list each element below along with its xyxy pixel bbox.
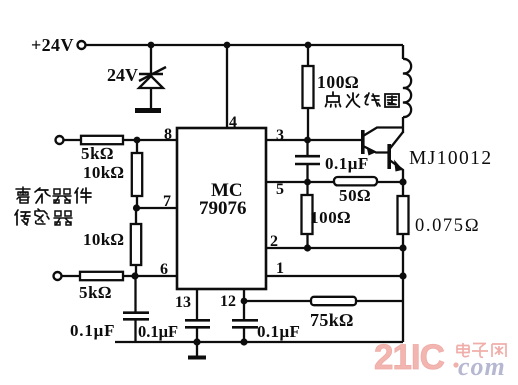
wire top rail right corner down	[402, 45, 404, 59]
wire coil to collectors	[402, 117, 404, 133]
wire 75k row left	[244, 300, 311, 302]
wire pin 12 down	[243, 289, 245, 320]
wire input2 to 5k	[62, 275, 80, 277]
node rail-C4 junction	[240, 338, 247, 345]
wire pin6 node to C1	[134, 276, 136, 313]
svg-text:10kΩ: 10kΩ	[83, 163, 124, 182]
ground (zener)	[135, 108, 161, 113]
pin label 6	[160, 261, 168, 278]
wire 10k top lead	[136, 140, 138, 153]
svg-text:3: 3	[276, 127, 284, 144]
node top-zener junction	[148, 42, 155, 49]
watermark 21IC	[374, 338, 445, 377]
label 0.075 ohm	[415, 216, 480, 236]
capacitor C3 0.1uF (pin13)	[185, 320, 210, 327]
svg-text:5: 5	[276, 181, 284, 198]
wire 100ohm mid top lead	[306, 182, 308, 195]
inductor ignition coil	[403, 59, 411, 117]
node top-pin4 junction	[224, 42, 231, 49]
label 5k bottom	[79, 283, 112, 302]
label 0.1uF C2	[325, 154, 369, 173]
svg-text:10kΩ: 10kΩ	[83, 230, 124, 249]
transistor Q1 (driver)	[363, 128, 403, 156]
svg-text:1: 1	[276, 260, 284, 277]
wire pin 1	[266, 275, 403, 277]
svg-text:6: 6	[160, 261, 168, 278]
pin label 4	[229, 114, 237, 131]
capacitor C1 0.1uF	[123, 313, 149, 320]
svg-text:50Ω: 50Ω	[339, 186, 371, 205]
pin label 2	[270, 233, 278, 250]
wire pin 7	[137, 207, 178, 209]
IC U1 MC79076	[177, 128, 266, 289]
watermark com	[458, 352, 506, 381]
terminal input 1	[56, 136, 64, 144]
wire 0.075 bottom lead	[402, 234, 404, 248]
pin label 3	[276, 127, 284, 144]
svg-text:2: 2	[270, 233, 278, 250]
node emitter junction	[399, 178, 406, 185]
svg-text:5kΩ: 5kΩ	[81, 144, 114, 163]
label 0.1uF C1	[70, 321, 115, 340]
svg-text:+24V: +24V	[31, 35, 74, 55]
wire pin 2	[266, 247, 403, 249]
wire pin 5	[266, 181, 334, 183]
svg-text:100Ω: 100Ω	[317, 72, 359, 92]
wire zener bottom lead	[150, 88, 152, 108]
svg-text:12: 12	[220, 293, 236, 310]
resistor R 5k (bottom)	[80, 272, 123, 280]
label 0.1uF C3	[138, 322, 178, 341]
wire right rail down	[402, 248, 404, 342]
resistor 10k (upper)	[132, 153, 142, 196]
label hall device sensor line2 (chuan gan qi)	[15, 209, 72, 225]
wire R-100 top lead	[307, 45, 309, 66]
svg-text:0.1μF: 0.1μF	[70, 321, 115, 340]
wire pin3 node to C2	[306, 140, 308, 156]
svg-text:24V: 24V	[107, 65, 138, 85]
transistor Q2 (MJ10012 output)	[389, 132, 403, 182]
svg-text:0.1μF: 0.1μF	[138, 322, 178, 341]
node pin5-C2 junction	[304, 179, 311, 186]
label 5k top	[81, 144, 114, 163]
resistor 10k (lower)	[131, 224, 141, 265]
wire C1 to bottom rail	[134, 319, 136, 342]
label 75k	[310, 310, 353, 330]
label 100ohm top	[317, 72, 359, 92]
node top-R100 junction	[305, 42, 312, 49]
svg-text:8: 8	[164, 126, 172, 143]
terminal +24V input	[78, 41, 86, 49]
wire top rail	[86, 44, 403, 46]
label 0.1uF C4	[257, 322, 300, 341]
wire 10k lower bottom lead	[135, 265, 137, 276]
wire C3 to rail	[196, 327, 198, 342]
wire 10k to pin7 node	[136, 196, 138, 208]
svg-text:0.1μF: 0.1μF	[325, 154, 369, 173]
wire 10k lower top lead	[135, 208, 137, 224]
label 24V	[107, 65, 138, 85]
svg-text:75kΩ: 75kΩ	[310, 310, 353, 330]
node pin2-right rail junction	[399, 244, 406, 251]
label 100 ohm mid	[310, 208, 351, 227]
wire C4 to rail	[243, 327, 245, 342]
label 10k upper	[83, 163, 124, 182]
wire C2 to pin5 line	[306, 164, 308, 182]
wire R5k to pin 8	[123, 139, 177, 141]
wire zener top lead	[150, 45, 152, 74]
wire 100ohm mid bottom lead	[306, 234, 308, 248]
label MC	[211, 180, 243, 201]
svg-text:13: 13	[175, 294, 191, 311]
svg-text:com: com	[458, 352, 506, 381]
wire input1 to R 5k	[64, 139, 81, 141]
label 10k lower	[83, 230, 124, 249]
wire 75k row right	[356, 300, 403, 302]
node pin8 junction	[134, 137, 141, 144]
label 79076	[199, 198, 247, 219]
pin label 13	[175, 294, 191, 311]
wire 50ohm to emitter node	[377, 181, 403, 183]
pin label 8	[164, 126, 172, 143]
label ignition coil (dian huo xian quan)	[326, 92, 400, 107]
pin label 1	[276, 260, 284, 277]
label +24V	[31, 35, 74, 55]
watermark dot	[453, 362, 458, 367]
label MJ10012	[409, 148, 492, 169]
zener diode 24V	[139, 67, 166, 88]
svg-text:0.075Ω: 0.075Ω	[415, 216, 480, 236]
wire pin 3 to base	[266, 139, 362, 141]
wire pin 13 down	[196, 289, 198, 320]
node pin3 junction	[304, 137, 311, 144]
resistor 75k	[311, 297, 356, 305]
resistor 50 ohm	[334, 177, 377, 185]
node pin7 junction	[133, 204, 140, 211]
capacitor C4 0.1uF (pin12)	[232, 320, 258, 327]
resistor 100 ohm (mid)	[302, 195, 313, 234]
node rail-C3 junction	[193, 338, 200, 345]
resistor R 5k (top)	[81, 136, 123, 144]
wire R-100 bottom lead	[307, 108, 309, 140]
watermark dian zi wang (electronics net)	[457, 343, 506, 357]
svg-text:100Ω: 100Ω	[310, 208, 351, 227]
pin label 5	[276, 181, 284, 198]
svg-text:7: 7	[163, 193, 171, 210]
svg-text:21IC: 21IC	[374, 338, 445, 377]
svg-text:0.1μF: 0.1μF	[257, 322, 300, 341]
svg-text:79076: 79076	[199, 198, 247, 219]
wire 5k to pin 6	[123, 275, 177, 277]
node pin12-75k junction	[241, 298, 248, 305]
wire pin4 to top rail	[226, 45, 228, 128]
resistor 0.075 ohm	[398, 196, 409, 234]
wire 0.075 top lead	[402, 182, 404, 196]
node pin2-100ohm junction	[304, 244, 311, 251]
node pin6 junction	[131, 272, 138, 279]
resistor 100 ohm (top)	[303, 66, 314, 108]
pin label 7	[163, 193, 171, 210]
capacitor C2 0.1uF	[295, 156, 320, 164]
wire bottom rail	[115, 341, 403, 343]
svg-text:5kΩ: 5kΩ	[79, 283, 112, 302]
label hall device sensor line1 (huo er qi jian)	[16, 187, 91, 203]
node pin1-right rail junction	[399, 272, 406, 279]
pin label 12	[220, 293, 236, 310]
ground (bottom rail)	[188, 342, 206, 358]
label 50 ohm	[339, 186, 371, 205]
terminal input 2	[54, 272, 62, 280]
svg-text:MJ10012: MJ10012	[409, 148, 492, 169]
